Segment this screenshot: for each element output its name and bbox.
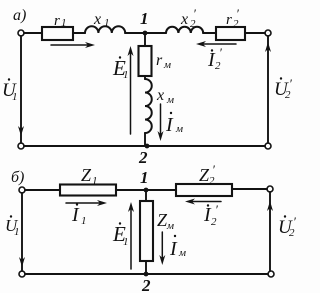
terminal right-top [265,30,271,36]
current arrow Im (diagram a) [160,104,162,134]
svg-text:′: ′ [236,6,239,21]
current arrow Im (b) [161,232,163,258]
svg-text:м: м [163,59,171,71]
current arrow I1 (b) [66,202,100,204]
wire node1 to rm [144,33,146,46]
svg-text:r: r [156,52,163,69]
terminal left (b) [19,187,25,193]
terminal right-bottom [265,143,271,149]
impedance Z1 [60,185,116,196]
impedance Z2' [176,184,232,196]
terminal right (b) [267,186,273,192]
svg-text:1: 1 [104,17,110,29]
inductor xm [145,79,152,133]
svg-text:а): а) [13,7,26,24]
resistor Rm [139,46,152,76]
svg-text:1: 1 [14,226,20,238]
svg-text:2: 2 [215,60,221,72]
svg-text:Z: Z [81,165,92,185]
svg-text:′: ′ [212,162,215,177]
svg-text:м: м [166,94,174,106]
inductor x2' [166,27,203,33]
svg-text:1: 1 [140,168,149,187]
svg-text:1: 1 [92,175,98,187]
node 1 [143,31,148,36]
terminal right-bottom (b) [268,271,274,277]
wire [144,76,146,79]
wire left vertical with U1 arrow (b) [21,193,23,271]
svg-text:x: x [156,87,164,104]
wire [245,32,265,34]
wire left vertical with U1 arrow [20,36,22,143]
svg-text:1: 1 [140,9,149,28]
svg-text:r: r [54,13,60,29]
svg-text:1: 1 [81,215,87,227]
emf arrow E1 (b) [130,209,132,269]
terminal left-bottom (b) [19,271,25,277]
current arrow I2' (diagram a) [202,43,236,45]
svg-text:I: I [71,204,80,226]
node 1 (b) [144,188,149,193]
bottom wire (diagram a) [24,145,265,147]
svg-text:м: м [178,247,186,259]
wire node1 to Zm [145,190,147,201]
wire right vertical with U2' arrow [267,36,269,143]
svg-text:1: 1 [12,91,18,103]
bottom wire (b) [25,273,268,275]
current arrow I2' (b) [191,201,221,203]
svg-text:2: 2 [141,276,151,293]
svg-text:м: м [175,123,183,135]
impedance Zm [140,201,153,261]
svg-text:′: ′ [215,202,218,217]
resistor R1 [42,27,73,40]
wire [125,32,166,34]
svg-text:′: ′ [219,45,222,60]
wire [24,32,42,34]
wire [73,32,85,34]
node 2 (b) [144,272,149,277]
wire [144,133,146,146]
svg-text:r: r [226,12,232,28]
wire [145,261,147,274]
svg-text:1: 1 [123,236,129,248]
svg-text:′: ′ [193,6,196,21]
wire [25,189,60,191]
svg-text:1: 1 [123,69,129,81]
svg-text:′: ′ [289,76,292,91]
svg-text:2: 2 [211,216,217,228]
resistor R2' [216,27,245,40]
inductor x1 [85,26,125,33]
svg-text:x: x [93,11,101,28]
wire [116,189,176,191]
svg-text:2: 2 [138,148,148,167]
wire right vertical with U2' arrow (b) [269,192,271,271]
svg-text:x: x [180,11,188,28]
svg-text:I: I [169,238,178,260]
svg-text:I: I [165,114,174,136]
emf arrow E1 (diagram a) [130,53,132,134]
svg-text:м: м [166,220,174,232]
node 2 [145,144,150,149]
current arrow under R1 (diagram a) [51,44,88,46]
terminal left-bottom [18,143,24,149]
svg-text:1: 1 [61,17,67,29]
svg-text:′: ′ [293,214,296,229]
wire [203,32,216,34]
svg-text:б): б) [11,169,24,186]
wire [232,188,267,190]
terminal left-top [18,30,24,36]
